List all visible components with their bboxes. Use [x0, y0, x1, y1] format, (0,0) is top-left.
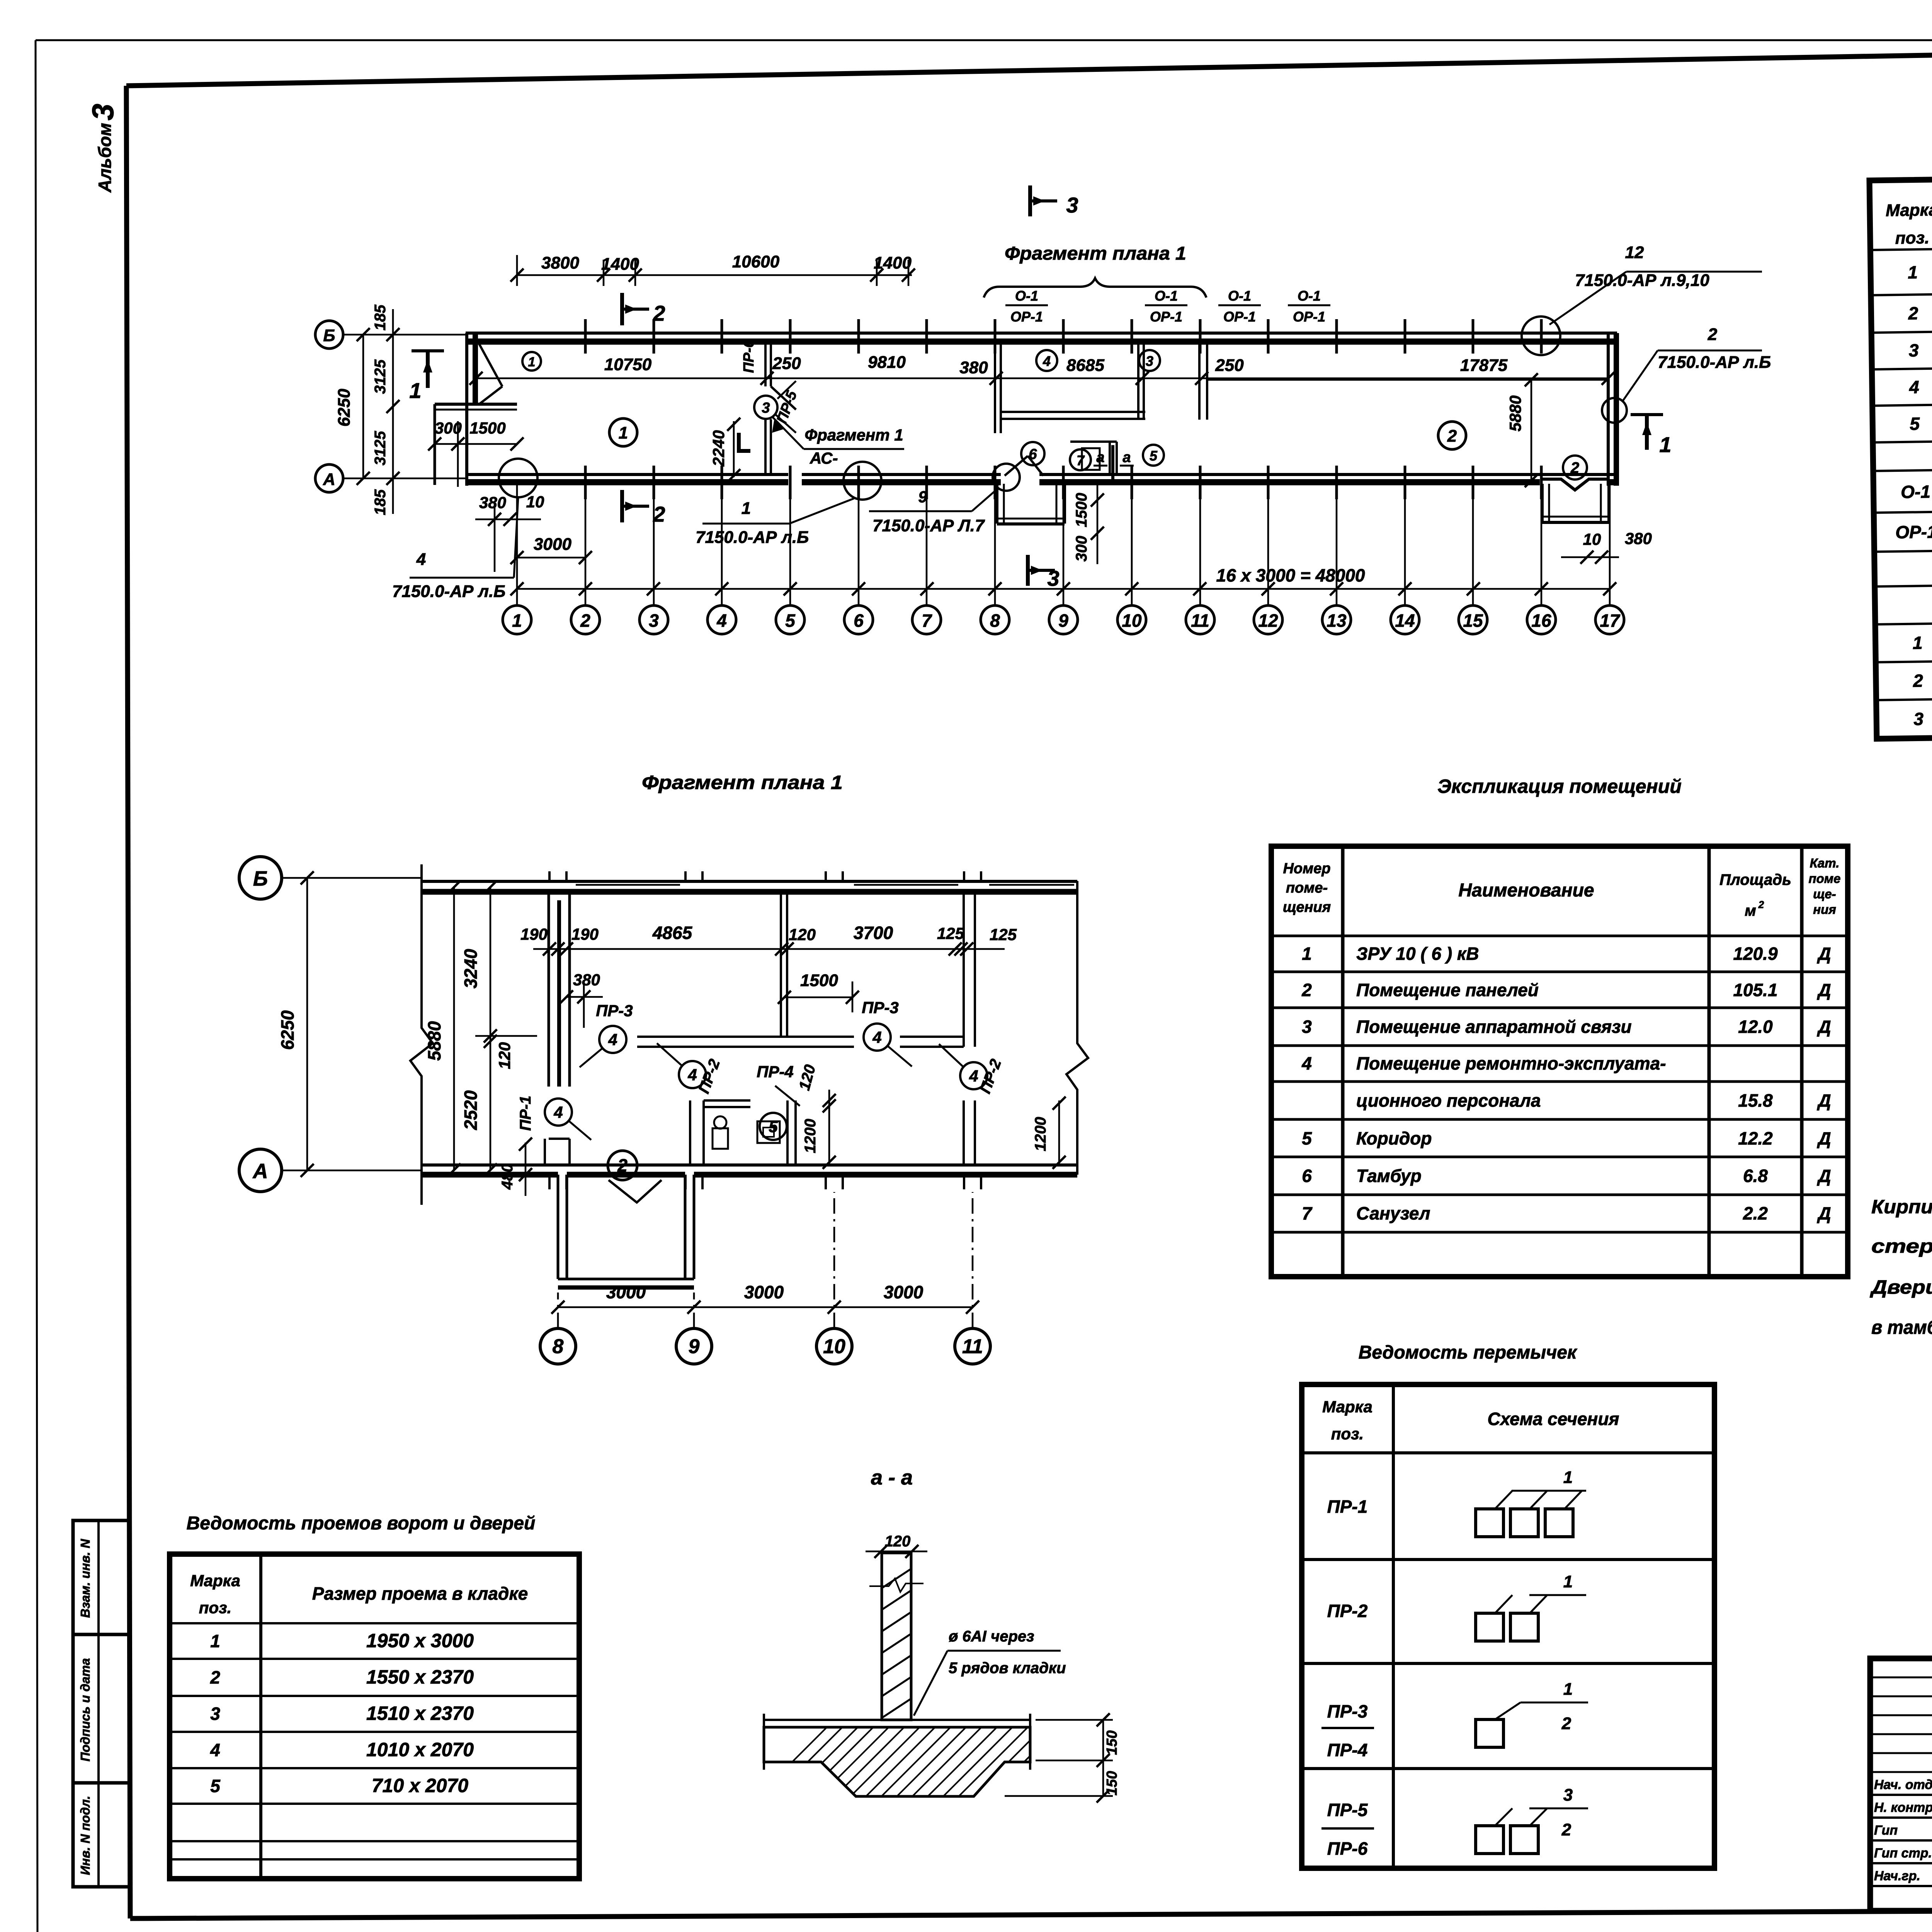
- svg-text:5 рядов кладки: 5 рядов кладки: [949, 1660, 1066, 1677]
- svg-text:ОР-1: ОР-1: [1150, 309, 1182, 325]
- svg-text:9810: 9810: [868, 353, 906, 372]
- svg-text:Гип стр.: Гип стр.: [1874, 1846, 1932, 1861]
- svg-text:3125: 3125: [372, 431, 389, 466]
- wire: grid line col 12: [1267, 484, 1269, 605]
- svg-text:м: м: [1745, 902, 1756, 919]
- svg-text:ОР-1: ОР-1: [1010, 309, 1043, 325]
- svg-text:2: 2: [210, 1667, 220, 1687]
- svg-text:1550 x 2370: 1550 x 2370: [366, 1666, 474, 1688]
- svg-text:380: 380: [1625, 529, 1652, 548]
- svg-text:15: 15: [1463, 611, 1483, 631]
- svg-text:Альбом: Альбом: [95, 123, 115, 193]
- svg-text:15.8: 15.8: [1738, 1090, 1773, 1111]
- svg-text:1: 1: [512, 611, 522, 631]
- svg-text:Наименование: Наименование: [1458, 880, 1594, 901]
- svg-text:АС-: АС-: [810, 449, 838, 467]
- svg-text:300: 300: [1073, 536, 1090, 562]
- spec table grid: [1869, 169, 1932, 739]
- fragment: dim 480: [525, 1143, 527, 1196]
- svg-text:1200: 1200: [1032, 1117, 1049, 1151]
- svg-text:190: 190: [520, 925, 548, 943]
- svg-text:Д: Д: [1816, 1166, 1831, 1186]
- main plan: wall ticks at grid columns (bottom wall): [584, 466, 587, 499]
- svg-text:3125: 3125: [372, 359, 389, 394]
- svg-text:2520: 2520: [461, 1090, 481, 1130]
- dim 10/380 bottom right: [1561, 556, 1619, 558]
- svg-text:1: 1: [742, 499, 751, 518]
- svg-text:3000: 3000: [744, 1282, 784, 1302]
- svg-text:Помещение аппаратной связи: Помещение аппаратной связи: [1356, 1017, 1632, 1037]
- wire: grid line col 1: [516, 484, 518, 605]
- wire: grid line col 3: [653, 484, 655, 605]
- protrusion below А between cols 16-17: [1541, 484, 1544, 522]
- svg-text:Санузел: Санузел: [1356, 1203, 1430, 1223]
- svg-text:6: 6: [854, 611, 864, 631]
- svg-text:поме: поме: [1808, 871, 1840, 886]
- svg-text:8: 8: [553, 1335, 564, 1358]
- svg-text:О-1: О-1: [1901, 481, 1930, 502]
- Ведомость перемычек table grid: [1302, 1384, 1714, 1868]
- svg-text:поз.: поз.: [1895, 228, 1929, 248]
- svg-text:Помещение ремонтно-эксплуата-: Помещение ремонтно-эксплуата-: [1356, 1053, 1666, 1073]
- svg-text:7150.0-АР Л.7: 7150.0-АР Л.7: [872, 516, 985, 535]
- svg-text:Марка: Марка: [1322, 1398, 1372, 1416]
- svg-text:5: 5: [1150, 448, 1158, 464]
- svg-text:6.8: 6.8: [1743, 1166, 1768, 1186]
- wire: grid line col 14: [1404, 484, 1406, 605]
- svg-text:Размер проема в кладке: Размер проема в кладке: [312, 1583, 528, 1604]
- fragment: row circle Б: [239, 857, 282, 899]
- svg-text:1: 1: [1563, 1572, 1573, 1591]
- svg-text:10: 10: [1583, 530, 1601, 548]
- dim 5880 vertical right part: [1531, 380, 1532, 481]
- svg-text:ПР-4: ПР-4: [1327, 1740, 1368, 1760]
- section mark 3 (top): [1028, 185, 1032, 216]
- svg-text:Взам. инв. N: Взам. инв. N: [78, 1539, 92, 1618]
- leader 9 / 7150.0-АР Л.7: [993, 464, 1020, 491]
- svg-text:ПР-3: ПР-3: [1327, 1701, 1368, 1721]
- svg-text:2: 2: [1570, 459, 1579, 476]
- svg-text:2: 2: [580, 611, 590, 631]
- fragment: vertical dim 5880: [453, 887, 455, 1170]
- partition at col 11 (x=3114): [1198, 342, 1201, 420]
- wire: grid line col 8: [994, 484, 996, 605]
- main plan: right end door zigzag (marka 2): [1542, 479, 1607, 490]
- main plan: row circle А: [315, 464, 343, 492]
- svg-text:2: 2: [653, 502, 665, 526]
- section: partition wall hatched: [882, 1553, 911, 1720]
- main plan: grid column circles 1-17: [503, 605, 531, 634]
- svg-text:4: 4: [608, 1031, 617, 1049]
- svg-text:О-1: О-1: [1155, 288, 1178, 304]
- svg-text:Экспликация помещений: Экспликация помещений: [1437, 776, 1682, 797]
- svg-text:190: 190: [571, 925, 599, 943]
- svg-text:125: 125: [990, 925, 1017, 944]
- svg-text:710 x 2070: 710 x 2070: [372, 1775, 468, 1796]
- svg-text:5: 5: [785, 611, 796, 631]
- svg-text:Д: Д: [1816, 980, 1831, 1000]
- svg-text:120: 120: [495, 1042, 514, 1069]
- svg-text:Нач.гр.: Нач.гр.: [1874, 1869, 1920, 1883]
- fragment: top wall: [422, 880, 1077, 883]
- dim 380/10 bottom left: [475, 519, 541, 520]
- svg-text:Гип: Гип: [1874, 1823, 1898, 1838]
- svg-text:1: 1: [1908, 262, 1918, 282]
- main plan: bottom wall (ось А): [466, 473, 788, 476]
- svg-text:Марка: Марка: [190, 1571, 240, 1590]
- leader 2 / 7150.0-АР л.Б (right): [1602, 398, 1627, 423]
- fragment: right cut line with break: [1066, 881, 1088, 1175]
- svg-text:Тамбур: Тамбур: [1356, 1166, 1422, 1186]
- main plan dimension 16 x 3000 = 48000 line: [517, 588, 1610, 590]
- leader 1 / 7150.0-АР л.Б (col 6): [844, 462, 881, 500]
- svg-text:1500: 1500: [1073, 493, 1090, 527]
- svg-text:ø 6АI через: ø 6АI через: [949, 1628, 1034, 1645]
- svg-text:12.0: 12.0: [1738, 1017, 1773, 1037]
- svg-text:ПР-3: ПР-3: [862, 998, 899, 1017]
- svg-text:3800: 3800: [541, 253, 579, 272]
- svg-text:поз.: поз.: [1331, 1425, 1364, 1443]
- svg-text:3: 3: [86, 104, 120, 120]
- svg-text:ОР-1: ОР-1: [1293, 309, 1325, 325]
- svg-text:2: 2: [1561, 1714, 1571, 1733]
- svg-text:125: 125: [937, 924, 964, 942]
- section: slab end breaks: [763, 1714, 765, 1770]
- svg-text:1: 1: [1659, 432, 1671, 457]
- section mark 2 (bottom): [620, 490, 624, 522]
- svg-text:Нач. отд.: Нач. отд.: [1874, 1777, 1932, 1792]
- left vertical dims 185/3125/3125/185 + 6250: [392, 309, 394, 514]
- svg-text:10: 10: [823, 1335, 845, 1358]
- svg-text:1010 x 2070: 1010 x 2070: [366, 1739, 474, 1760]
- fragment: dim 1200 left: [828, 1100, 830, 1165]
- svg-text:12.2: 12.2: [1738, 1128, 1773, 1148]
- svg-text:8: 8: [990, 611, 1000, 631]
- svg-text:2: 2: [1908, 303, 1918, 323]
- svg-text:11: 11: [962, 1335, 983, 1358]
- svg-text:3: 3: [210, 1704, 220, 1724]
- svg-text:щения: щения: [1283, 899, 1331, 915]
- svg-text:3: 3: [1913, 709, 1924, 729]
- svg-text:Фрагмент плана 1: Фрагмент плана 1: [1005, 243, 1186, 264]
- svg-text:120: 120: [789, 925, 816, 944]
- svg-text:2: 2: [1758, 899, 1764, 910]
- main plan: row circle Б: [315, 321, 343, 349]
- svg-text:Номер: Номер: [1283, 861, 1330, 877]
- title block signature rows: [1870, 1794, 1932, 1796]
- dim 300/1500 vertical at tambur: [1097, 483, 1099, 564]
- fragment: dim 1500: [784, 997, 852, 998]
- svg-text:12: 12: [1625, 243, 1644, 262]
- svg-text:4: 4: [1043, 353, 1051, 369]
- svg-text:7150.0-АР л.Б: 7150.0-АР л.Б: [392, 582, 505, 601]
- interior corridor wall y=1075: [1001, 411, 1145, 413]
- svg-text:5: 5: [1910, 413, 1920, 434]
- svg-text:185: 185: [372, 304, 389, 330]
- svg-text:120.9: 120.9: [1733, 944, 1778, 964]
- svg-text:1: 1: [409, 378, 421, 403]
- svg-text:3700: 3700: [854, 923, 893, 943]
- svg-text:480: 480: [499, 1164, 516, 1190]
- svg-text:3000: 3000: [884, 1282, 923, 1302]
- svg-text:ОР-1: ОР-1: [1223, 309, 1256, 325]
- wire: grid line col 11: [1199, 484, 1201, 605]
- fragment: dim 1200 right: [1058, 1100, 1060, 1165]
- wire: grid line col 10: [1131, 484, 1133, 605]
- svg-text:4: 4: [1301, 1053, 1312, 1073]
- svg-text:4: 4: [1909, 377, 1919, 397]
- main plan: right end wall: [1607, 333, 1610, 486]
- Экспликация table grid: [1271, 846, 1848, 1277]
- fragment: dim line 3000x3 y=3383: [558, 1306, 973, 1308]
- svg-text:185: 185: [372, 489, 389, 515]
- svg-text:5: 5: [210, 1776, 221, 1796]
- svg-text:стержнями Ø 6 А I, см. сечение: стержнями Ø 6 А I, см. сечение а - а.: [1871, 1235, 1932, 1257]
- room number circles in main plan: [522, 352, 541, 371]
- leader 12 / 7150.0-АР л.9,10 (top right): [1522, 316, 1560, 355]
- wire: grid line col 16: [1541, 484, 1543, 605]
- svg-text:4: 4: [716, 611, 727, 631]
- section mark 1 (left): [412, 349, 444, 352]
- svg-text:3240: 3240: [461, 949, 481, 988]
- svg-text:2: 2: [1447, 427, 1457, 446]
- svg-text:в тамбур обить кровельной стал: в тамбур обить кровельной сталью по асбе…: [1871, 1316, 1932, 1338]
- svg-text:Б: Б: [323, 326, 335, 345]
- svg-text:Кирпичные перегородки толщиной: Кирпичные перегородки толщиной 120 мм ар…: [1871, 1196, 1932, 1218]
- fragment: partition col 11: [963, 892, 965, 1047]
- svg-text:ционного персонала: ционного персонала: [1356, 1090, 1541, 1111]
- title block thin rows: [1870, 1677, 1932, 1679]
- title block (штамп) outline: [1870, 1658, 1932, 1911]
- svg-text:поз.: поз.: [199, 1599, 231, 1617]
- svg-text:12: 12: [1258, 611, 1278, 631]
- svg-text:Помещение панелей: Помещение панелей: [1356, 980, 1539, 1000]
- svg-text:Двери в перегородке в помещени: Двери в перегородке в помещении ЗРУ и пр…: [1869, 1276, 1932, 1298]
- svg-text:10: 10: [1122, 611, 1142, 631]
- fragment: dim 190/190 and 4865 line y=2456: [533, 948, 1005, 950]
- svg-text:Инв. N подл.: Инв. N подл.: [78, 1796, 92, 1875]
- svg-text:10600: 10600: [732, 252, 780, 271]
- svg-text:1: 1: [1563, 1680, 1573, 1699]
- svg-text:1: 1: [619, 423, 628, 442]
- svg-text:10750: 10750: [604, 355, 652, 374]
- svg-text:Коридор: Коридор: [1356, 1128, 1432, 1148]
- svg-text:Фрагмент плана 1: Фрагмент плана 1: [642, 772, 843, 793]
- svg-text:7150.0-АР л.Б: 7150.0-АР л.Б: [696, 528, 809, 547]
- main plan interior dimension line y=979: [476, 378, 1608, 379]
- svg-text:ПР-1: ПР-1: [1327, 1497, 1368, 1517]
- wire: grid line col 5: [789, 484, 791, 605]
- svg-text:1400: 1400: [874, 253, 912, 272]
- svg-text:Марка: Марка: [1886, 201, 1932, 220]
- svg-text:4: 4: [416, 550, 426, 569]
- svg-text:ПР-4: ПР-4: [757, 1063, 794, 1081]
- wire: grid line col 17: [1609, 484, 1611, 605]
- section mark 2 (top): [620, 293, 624, 325]
- fragment: window inner lines top wall: [576, 884, 680, 886]
- svg-text:А: А: [323, 470, 335, 489]
- svg-text:2240: 2240: [709, 430, 728, 466]
- svg-text:1400: 1400: [601, 255, 639, 274]
- fragment: sink fixture: [757, 1121, 780, 1143]
- svg-text:1500: 1500: [469, 419, 505, 437]
- svg-text:Д: Д: [1816, 1090, 1831, 1111]
- svg-text:Фрагмент 1: Фрагмент 1: [804, 426, 903, 444]
- fragment: corridor wall: [637, 1036, 854, 1038]
- section: floor slab: [764, 1719, 1030, 1721]
- svg-text:2: 2: [653, 301, 665, 325]
- main plan: left end wall: [465, 333, 468, 486]
- fragment: left cut line with break: [410, 864, 433, 1205]
- fragment: санузел walls: [689, 1100, 691, 1165]
- svg-text:3: 3: [649, 611, 659, 631]
- section: dims 150/150: [1102, 1720, 1104, 1796]
- svg-text:3: 3: [1563, 1786, 1573, 1804]
- svg-text:5880: 5880: [424, 1021, 444, 1061]
- svg-text:7: 7: [922, 611, 932, 631]
- fragment: vertical dims 3240/120/2520: [490, 887, 492, 1170]
- svg-text:Д: Д: [1816, 944, 1831, 964]
- fragment: bottom wall: [422, 1163, 1077, 1167]
- svg-text:4: 4: [872, 1028, 881, 1046]
- main plan: wall ticks at grid columns (top wall): [584, 319, 587, 354]
- svg-text:а: а: [1096, 449, 1104, 466]
- svg-text:ПР-2: ПР-2: [1327, 1601, 1368, 1621]
- svg-text:3: 3: [1066, 193, 1078, 217]
- fragment: tambur protrusion below: [557, 1175, 560, 1279]
- fragment: shaft wall at col 8: [548, 892, 550, 1087]
- svg-text:О-1: О-1: [1015, 288, 1038, 304]
- svg-text:5: 5: [769, 1117, 778, 1136]
- main plan: left vestibule walls: [435, 403, 517, 406]
- svg-text:7150.0-АР л.Б: 7150.0-АР л.Б: [1658, 353, 1771, 372]
- fragment: wall jamb marks at cols: [548, 871, 551, 881]
- svg-text:поме-: поме-: [1286, 880, 1328, 896]
- svg-text:6250: 6250: [277, 1010, 298, 1050]
- svg-text:3000: 3000: [534, 535, 571, 554]
- svg-text:1: 1: [1302, 944, 1312, 964]
- svg-text:а: а: [1122, 449, 1131, 466]
- svg-text:120: 120: [885, 1533, 911, 1550]
- wire: grid line col 15: [1472, 484, 1474, 605]
- svg-text:ПР-6: ПР-6: [741, 339, 757, 373]
- svg-text:Ведомость перемычек: Ведомость перемычек: [1359, 1342, 1578, 1363]
- svg-text:380: 380: [959, 358, 988, 377]
- svg-text:1510 x 2370: 1510 x 2370: [366, 1702, 474, 1724]
- leader 4 / 7150.0-АР л.Б (bottom left): [499, 459, 537, 497]
- svg-text:ния: ния: [1813, 902, 1836, 917]
- section mark 3 (bottom): [1026, 555, 1030, 586]
- svg-text:17: 17: [1600, 611, 1621, 631]
- fragment: toilet fixture: [713, 1128, 728, 1149]
- svg-text:105.1: 105.1: [1733, 980, 1777, 1000]
- svg-text:О-1: О-1: [1228, 288, 1251, 304]
- dim 2240 + section mark near ПР-5: [733, 421, 735, 477]
- svg-text:7: 7: [1302, 1203, 1313, 1223]
- wire: grid line col 6: [858, 484, 860, 605]
- svg-text:8685: 8685: [1066, 356, 1104, 375]
- fragment: exit door swing (room 2): [609, 1180, 662, 1202]
- svg-text:Д: Д: [1816, 1017, 1831, 1037]
- main plan: left end door swing: [479, 344, 502, 386]
- svg-text:250: 250: [1215, 356, 1244, 375]
- svg-text:ПР-6: ПР-6: [1327, 1838, 1368, 1859]
- svg-text:2: 2: [1561, 1820, 1571, 1839]
- svg-text:1: 1: [528, 355, 536, 369]
- svg-text:3000: 3000: [606, 1282, 646, 1302]
- svg-text:13: 13: [1327, 611, 1347, 631]
- svg-text:6250: 6250: [335, 389, 354, 427]
- svg-text:7150.0-АР л.9,10: 7150.0-АР л.9,10: [1575, 271, 1709, 290]
- svg-text:1200: 1200: [802, 1119, 819, 1153]
- svg-text:250: 250: [772, 354, 801, 373]
- svg-text:380: 380: [573, 971, 600, 989]
- fragment: dim 380: [566, 996, 603, 998]
- svg-text:2: 2: [617, 1155, 628, 1175]
- svg-text:О-1: О-1: [1298, 288, 1321, 304]
- svg-text:Подпись и дата: Подпись и дата: [78, 1658, 92, 1762]
- svg-text:2: 2: [1913, 670, 1923, 690]
- wire: grid line col 9: [1063, 484, 1065, 605]
- partition door leaf ПР-5: [771, 386, 796, 410]
- svg-text:Д: Д: [1816, 1203, 1831, 1223]
- fragment: row circle А: [239, 1149, 282, 1192]
- dim 3000 between cols 1-2: [517, 557, 585, 559]
- svg-text:17875: 17875: [1460, 356, 1508, 375]
- svg-text:1: 1: [1913, 633, 1923, 653]
- svg-text:4: 4: [969, 1067, 978, 1085]
- svg-text:ОР-1: ОР-1: [1895, 522, 1932, 542]
- fragment: grid circles 8-11: [540, 1328, 576, 1364]
- svg-text:ПР-3: ПР-3: [596, 1002, 633, 1020]
- section mark 1 (right): [1631, 413, 1663, 416]
- wire: grid line col 7: [926, 484, 928, 605]
- svg-text:Д: Д: [1816, 1128, 1831, 1148]
- left margin boxes: Взам.инв.N / Подпись и дата / Инв.N подл.: [73, 1520, 129, 1887]
- svg-text:ПР-5: ПР-5: [1327, 1800, 1368, 1820]
- svg-text:ЗРУ 10 ( 6 ) кВ: ЗРУ 10 ( 6 ) кВ: [1356, 944, 1479, 964]
- partition ПР-5/ПР-6 at x=1988: [764, 342, 767, 386]
- fragment: vertical dim 6250: [306, 878, 308, 1170]
- Ведомость проемов table grid: [170, 1554, 579, 1879]
- svg-text:3: 3: [762, 400, 770, 416]
- wire: grid line col 13: [1336, 484, 1338, 605]
- svg-text:16 x 3000 = 48000: 16 x 3000 = 48000: [1216, 565, 1365, 585]
- svg-text:16: 16: [1531, 611, 1551, 631]
- svg-text:9: 9: [1058, 611, 1068, 631]
- svg-text:Кат.: Кат.: [1810, 856, 1840, 870]
- svg-text:150: 150: [1104, 1771, 1120, 1795]
- svg-text:1: 1: [210, 1631, 220, 1651]
- svg-text:2: 2: [1301, 980, 1312, 1000]
- svg-text:А: А: [252, 1160, 268, 1183]
- svg-text:Н. контр.: Н. контр.: [1874, 1800, 1932, 1815]
- svg-text:2: 2: [1708, 325, 1718, 344]
- svg-text:Ведомость проемов ворот и двер: Ведомость проемов ворот и дверей: [187, 1513, 536, 1534]
- partition x=2950 (room 3/4): [1137, 342, 1139, 419]
- svg-text:9: 9: [689, 1335, 700, 1358]
- svg-text:380: 380: [479, 493, 506, 512]
- svg-text:2.2: 2.2: [1743, 1203, 1768, 1223]
- svg-text:3: 3: [1146, 353, 1153, 369]
- dim 300/1500 at left vestibule: [435, 443, 517, 445]
- inner drawing frame (thick): [126, 43, 1932, 86]
- svg-text:9: 9: [918, 488, 927, 506]
- svg-text:ще-: ще-: [1813, 887, 1836, 901]
- svg-text:5: 5: [1302, 1128, 1312, 1148]
- sheet outer border (thin cut lines): [36, 39, 1932, 41]
- svg-text:а - а: а - а: [871, 1466, 913, 1489]
